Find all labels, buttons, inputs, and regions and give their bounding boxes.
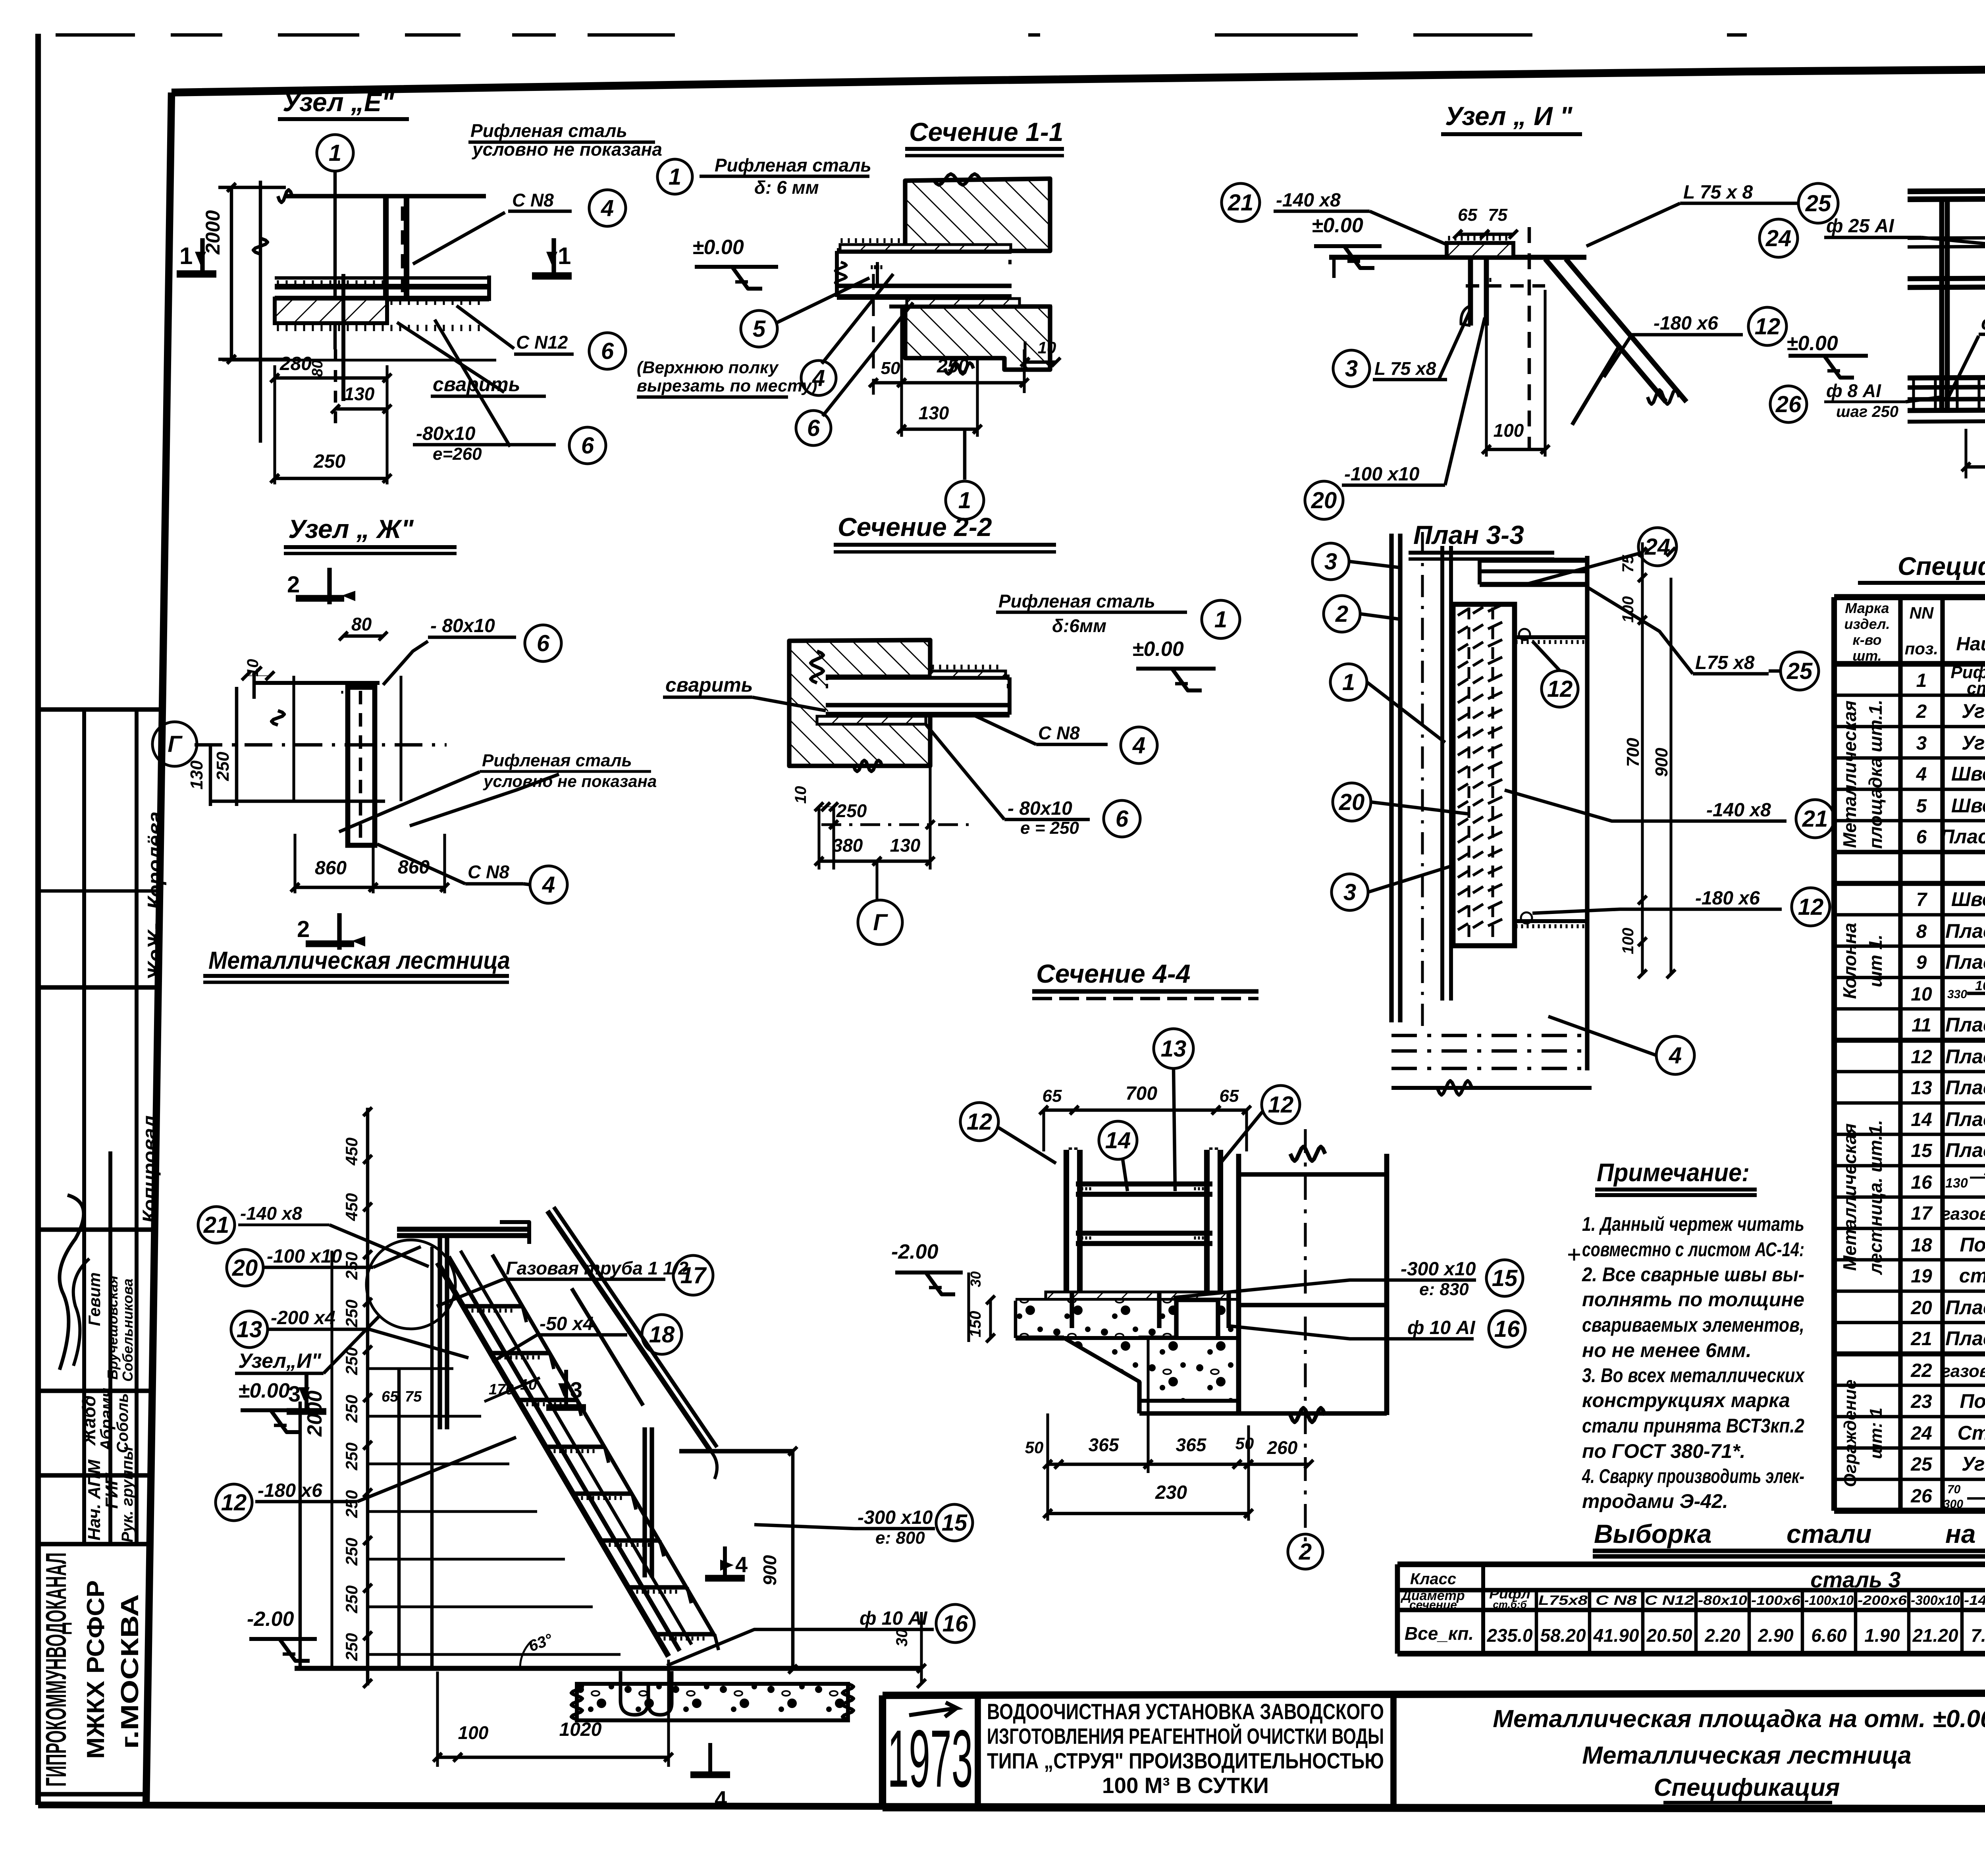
svg-text:ГИПРОКОММУНВОДОКАНАЛ: ГИПРОКОММУНВОДОКАНАЛ: [40, 1552, 72, 1787]
svg-text:3: 3: [1324, 549, 1337, 575]
svg-text:3: 3: [1916, 733, 1927, 754]
svg-text:L 75 х8: L 75 х8: [1374, 358, 1436, 379]
svg-text:Швеллер: Швеллер: [1951, 794, 1985, 817]
svg-text:Уголок: Уголок: [1962, 1453, 1985, 1475]
svg-text:Собельникова: Собельникова: [119, 1278, 136, 1382]
svg-text:сталь: сталь: [1967, 679, 1985, 698]
svg-text:130: 130: [890, 835, 921, 856]
svg-text:±0.00: ±0.00: [1786, 332, 1838, 355]
svg-text:10: 10: [1038, 338, 1056, 357]
svg-text:Металлическая лестница: Металлическая лестница: [208, 947, 510, 974]
svg-text:700: 700: [1125, 1083, 1157, 1104]
svg-text:Пластина: Пластина: [1945, 1296, 1985, 1319]
svg-text:4. Сварку производить элек-: 4. Сварку производить элек-: [1582, 1465, 1804, 1487]
svg-text:1020: 1020: [559, 1719, 602, 1740]
svg-text:7: 7: [1916, 889, 1928, 910]
svg-text:50: 50: [1025, 1438, 1044, 1457]
svg-text:2.90: 2.90: [1758, 1625, 1794, 1646]
svg-text:80: 80: [309, 360, 326, 377]
svg-text:-100 х10: -100 х10: [1344, 464, 1420, 485]
svg-text:вырезать по месту): вырезать по месту): [637, 376, 817, 395]
svg-text:6: 6: [807, 415, 820, 441]
svg-text:-100 х10: -100 х10: [267, 1246, 342, 1267]
svg-text:18: 18: [1911, 1235, 1932, 1256]
svg-text:но не менее 6мм.: но не менее 6мм.: [1582, 1339, 1752, 1361]
svg-text:16: 16: [1911, 1172, 1932, 1193]
svg-text:-140 х8: -140 х8: [240, 1203, 302, 1224]
svg-text:365: 365: [1176, 1434, 1207, 1455]
svg-text:-100х6: -100х6: [1751, 1593, 1801, 1608]
svg-text:Пластина: Пластина: [1945, 1108, 1985, 1130]
svg-text:δ:6мм: δ:6мм: [1052, 615, 1106, 636]
svg-text:1: 1: [958, 488, 971, 513]
svg-text:5: 5: [1916, 796, 1927, 817]
svg-text:900: 900: [759, 1555, 780, 1585]
svg-text:С N8: С N8: [512, 190, 554, 210]
svg-text:Ограждение: Ограждение: [1840, 1379, 1860, 1487]
svg-text:12: 12: [1911, 1047, 1932, 1068]
svg-text:2: 2: [1335, 601, 1348, 627]
svg-text:30: 30: [893, 1629, 911, 1647]
svg-text:Металлическая площадка на от: Металлическая площадка на отм. ±0.00.: [1493, 1705, 1985, 1733]
svg-text:6: 6: [601, 338, 614, 364]
svg-text:Рифленая сталь: Рифленая сталь: [998, 591, 1155, 611]
svg-text:Полоса: Полоса: [1960, 1234, 1985, 1256]
svg-text:-200 х4: -200 х4: [271, 1307, 335, 1328]
svg-text:235.0: 235.0: [1486, 1625, 1533, 1646]
svg-text:Г: Г: [168, 731, 183, 757]
svg-text:14: 14: [1105, 1128, 1131, 1153]
svg-text:130: 130: [344, 384, 375, 404]
title block: [883, 1692, 1985, 1695]
svg-text:24: 24: [1765, 226, 1792, 251]
svg-text:12: 12: [967, 1109, 992, 1135]
svg-text:Швеллер: Швеллер: [1951, 888, 1985, 910]
svg-text:75: 75: [405, 1388, 422, 1405]
svg-text:25: 25: [1786, 658, 1813, 684]
svg-text:ЖоЖ-: ЖоЖ-: [144, 923, 167, 982]
svg-text:100 М³ В СУТКИ: 100 М³ В СУТКИ: [1102, 1773, 1269, 1798]
svg-text:250: 250: [836, 800, 867, 821]
svg-text:250: 250: [342, 1633, 361, 1661]
svg-text:160: 160: [1975, 978, 1985, 993]
left signature column: [39, 707, 162, 711]
svg-text:Пластина: Пластина: [1945, 951, 1985, 973]
svg-text:Г: Г: [873, 910, 888, 935]
svg-text:Все_кп.: Все_кп.: [1405, 1623, 1474, 1644]
svg-text:900: 900: [1652, 748, 1671, 777]
svg-text:4: 4: [735, 1552, 748, 1577]
svg-text:Узел „Е": Узел „Е": [283, 87, 394, 117]
svg-text:-140 х8: -140 х8: [1706, 800, 1771, 821]
svg-text:1973: 1973: [888, 1713, 973, 1804]
svg-text:380: 380: [833, 835, 863, 856]
svg-text:330: 330: [1947, 988, 1967, 1001]
svg-text:20: 20: [232, 1255, 258, 1281]
svg-text:стали принята ВСТ3кп.2: стали принята ВСТ3кп.2: [1582, 1415, 1804, 1437]
svg-text:21: 21: [1228, 190, 1254, 216]
svg-text:стойка: стойка: [1959, 1265, 1985, 1287]
svg-text:е: 830: е: 830: [1419, 1280, 1469, 1299]
svg-text:-50 х4: -50 х4: [540, 1313, 594, 1334]
svg-text:250: 250: [342, 1442, 361, 1471]
svg-text:6.60: 6.60: [1811, 1625, 1847, 1646]
svg-text:Наимен.: Наимен.: [1956, 634, 1985, 655]
svg-text:100: 100: [1619, 928, 1637, 954]
svg-text:1.90: 1.90: [1864, 1625, 1900, 1646]
svg-text:L75 х8: L75 х8: [1695, 652, 1755, 673]
svg-text:Узел „ И ": Узел „ И ": [1445, 101, 1573, 131]
svg-text:ф 8 АI: ф 8 АI: [1826, 380, 1881, 401]
svg-text:15: 15: [942, 1510, 967, 1536]
svg-text:17: 17: [1911, 1203, 1933, 1224]
svg-text:-300х10: -300х10: [1911, 1593, 1960, 1608]
paper edge: [56, 33, 135, 37]
svg-text:Металлическая: Металлическая: [1839, 700, 1860, 848]
svg-text:1: 1: [558, 243, 571, 269]
svg-text:шт.: шт.: [1852, 648, 1882, 664]
svg-text:25: 25: [1910, 1454, 1933, 1475]
svg-text:12: 12: [1268, 1092, 1294, 1118]
svg-text:по ГОСТ 380-71*.: по ГОСТ 380-71*.: [1582, 1440, 1746, 1462]
svg-text:Пластина: Пластина: [1945, 920, 1985, 942]
svg-text:L75х8: L75х8: [1538, 1593, 1588, 1608]
svg-text:Пластина: Пластина: [1945, 1327, 1985, 1350]
svg-text:23: 23: [1910, 1391, 1932, 1412]
svg-text:-140 х8: -140 х8: [1276, 190, 1341, 211]
svg-text:250: 250: [342, 1395, 361, 1423]
svg-text:100: 100: [458, 1722, 489, 1743]
svg-text:130: 130: [1945, 1176, 1968, 1191]
svg-text:Рифленая сталь: Рифленая сталь: [482, 751, 632, 770]
svg-text:10: 10: [1911, 984, 1932, 1005]
svg-text:ИЗГОТОВЛЕНИЯ РЕАГЕНТНОЙ ОЧИСТК: ИЗГОТОВЛЕНИЯ РЕАГЕНТНОЙ ОЧИСТКИ ВОДЫ: [987, 1724, 1384, 1749]
svg-text:Бручешовская: Бручешовская: [104, 1276, 121, 1380]
svg-text:8: 8: [1916, 921, 1927, 942]
svg-text:250: 250: [313, 451, 345, 472]
svg-text:L 75 х 8: L 75 х 8: [1683, 182, 1753, 203]
svg-text:13: 13: [1911, 1078, 1932, 1099]
svg-text:4: 4: [812, 365, 825, 391]
svg-text:Пластинка: Пластинка: [1940, 825, 1985, 848]
svg-text:Соболь: Соболь: [114, 1393, 131, 1453]
svg-text:3: 3: [288, 1381, 301, 1406]
svg-text:-80х10: -80х10: [416, 423, 476, 444]
svg-text:300: 300: [1943, 1498, 1963, 1511]
svg-text:21.20: 21.20: [1912, 1625, 1958, 1646]
svg-text:65: 65: [1458, 205, 1477, 225]
svg-text:15: 15: [1911, 1140, 1933, 1161]
svg-text:15: 15: [1492, 1265, 1518, 1291]
svg-text:С N12: С N12: [516, 332, 568, 353]
svg-text:тродами Э-42.: тродами Э-42.: [1582, 1490, 1728, 1512]
svg-text:21: 21: [1910, 1328, 1932, 1350]
svg-text:-180 х6: -180 х6: [258, 1480, 322, 1501]
svg-text:сталь 3: сталь 3: [1810, 1567, 1901, 1592]
svg-text:50: 50: [881, 359, 900, 378]
svg-text:NN: NN: [1910, 603, 1934, 622]
svg-text:18: 18: [649, 1322, 675, 1348]
svg-text:860: 860: [315, 858, 347, 879]
svg-text:1: 1: [1916, 670, 1927, 691]
svg-text:-180 х6: -180 х6: [1695, 888, 1760, 909]
svg-text:250: 250: [342, 1585, 361, 1614]
svg-text:230: 230: [1155, 1482, 1187, 1503]
svg-text:19: 19: [1911, 1266, 1932, 1287]
svg-text:2.20: 2.20: [1704, 1625, 1740, 1646]
svg-text:1: 1: [179, 243, 193, 269]
svg-text:2: 2: [287, 572, 300, 598]
svg-text:Примечание:: Примечание:: [1597, 1158, 1750, 1187]
svg-text:Сечение 4-4: Сечение 4-4: [1036, 959, 1191, 988]
svg-text:250: 250: [342, 1300, 361, 1328]
svg-text:Сечение 2-2: Сечение 2-2: [838, 512, 992, 542]
svg-text:130: 130: [187, 760, 206, 790]
svg-text:12: 12: [1755, 314, 1781, 339]
svg-text:3: 3: [1343, 879, 1356, 905]
svg-text:1: 1: [669, 164, 681, 190]
svg-text:Марка: Марка: [1845, 600, 1889, 616]
svg-text:Металлическая: Металлическая: [1839, 1123, 1860, 1271]
svg-text:20: 20: [1339, 789, 1365, 815]
svg-text:24: 24: [1910, 1423, 1932, 1444]
svg-text:1: 1: [1214, 607, 1227, 632]
svg-text:ВОДООЧИСТНАЯ УСТАНОВКА ЗАВОД: ВОДООЧИСТНАЯ УСТАНОВКА ЗАВОДСКОГО: [987, 1699, 1384, 1724]
svg-text:100: 100: [1619, 596, 1637, 623]
svg-text:250: 250: [342, 1538, 361, 1566]
svg-text:С N8: С N8: [1596, 1593, 1637, 1608]
svg-text:6: 6: [1916, 827, 1927, 848]
svg-text:План 3-3: План 3-3: [1413, 520, 1524, 549]
svg-text:-80х10: -80х10: [1698, 1593, 1747, 1608]
svg-text:Класс: Класс: [1410, 1570, 1456, 1588]
svg-text:ТИПА „СТРУЯ" ПРОИЗВОДИТЕЛЬНОСТ: ТИПА „СТРУЯ" ПРОИЗВОДИТЕЛЬНОСТЬЮ: [987, 1748, 1384, 1773]
svg-text:1. Данный чертеж читать: 1. Данный чертеж читать: [1582, 1213, 1804, 1235]
svg-text:Пластина: Пластина: [1945, 1139, 1985, 1161]
svg-text:стали: стали: [1786, 1519, 1871, 1548]
svg-text:58.20: 58.20: [1540, 1625, 1586, 1646]
svg-text:С N12: С N12: [1645, 1593, 1694, 1608]
svg-text:г.МОСКВА: г.МОСКВА: [116, 1594, 144, 1749]
svg-text:е = 250: е = 250: [1020, 818, 1079, 838]
svg-text:Спецификация: Спецификация: [1654, 1774, 1840, 1801]
svg-text:16: 16: [942, 1611, 968, 1637]
svg-text:Газовая труба 1 1/2: Газовая труба 1 1/2: [506, 1258, 688, 1278]
svg-text:365: 365: [1089, 1434, 1120, 1455]
svg-text:Рифленая сталь: Рифленая сталь: [470, 120, 627, 141]
svg-text:- 80х10: - 80х10: [430, 615, 495, 636]
svg-text:1: 1: [1342, 669, 1355, 695]
svg-text:Гевит: Гевит: [85, 1273, 104, 1326]
svg-text:сечение: сечение: [1409, 1598, 1457, 1612]
svg-text:-300 х10: -300 х10: [1401, 1259, 1476, 1280]
svg-text:(Верхнюю полку: (Верхнюю полку: [637, 358, 779, 377]
svg-text:Копировал: Копировал: [139, 1115, 161, 1223]
svg-text:11: 11: [1912, 1015, 1931, 1036]
svg-text:3: 3: [1345, 356, 1358, 382]
svg-text:2. Все сварные швы вы-: 2. Все сварные швы вы-: [1582, 1263, 1804, 1286]
svg-text:е=260: е=260: [433, 444, 482, 464]
svg-text:Полоса: Полоса: [1960, 1390, 1985, 1412]
svg-text:130: 130: [919, 403, 949, 423]
svg-text:-100х10: -100х10: [1804, 1593, 1854, 1608]
svg-text:700: 700: [1623, 738, 1643, 767]
svg-text:450: 450: [342, 1193, 361, 1221]
svg-text:Пластина: Пластина: [1945, 1014, 1985, 1036]
svg-text:-300 х10: -300 х10: [858, 1507, 933, 1528]
svg-text:Металлическая лестница: Металлическая лестница: [1582, 1742, 1911, 1769]
svg-text:ф 25 АI: ф 25 АI: [1826, 216, 1894, 237]
svg-text:ф 10 АI: ф 10 АI: [1407, 1317, 1476, 1338]
svg-text:Узел„И": Узел„И": [238, 1350, 322, 1373]
svg-text:Уголок: Уголок: [1962, 732, 1985, 754]
svg-text:4: 4: [1916, 764, 1927, 785]
svg-text:- 80х10: - 80х10: [1008, 798, 1072, 819]
svg-text:условно не показана: условно не показана: [483, 772, 657, 791]
svg-text:14: 14: [1911, 1109, 1932, 1130]
svg-text:Королёва: Королёва: [144, 812, 167, 909]
svg-text:13: 13: [237, 1317, 262, 1342]
svg-text:26: 26: [1910, 1486, 1932, 1507]
svg-text:Колонна: Колонна: [1839, 923, 1860, 999]
svg-text:Спецификация: Спецификация: [1898, 552, 1985, 580]
svg-text:2: 2: [1916, 701, 1927, 722]
svg-text:6: 6: [1116, 806, 1129, 832]
svg-text:Уголок: Уголок: [1962, 700, 1985, 722]
svg-text:поз.: поз.: [1905, 639, 1938, 658]
svg-text:шт: 1: шт: 1: [1866, 1407, 1886, 1459]
frame: [172, 66, 1985, 93]
svg-text:65: 65: [1043, 1086, 1062, 1106]
svg-text:2000: 2000: [202, 210, 224, 255]
svg-text:С N8: С N8: [1038, 723, 1080, 743]
svg-text:издел.: издел.: [1844, 616, 1890, 632]
svg-text:20: 20: [1910, 1298, 1932, 1319]
svg-text:МЖКХ РСФСР: МЖКХ РСФСР: [82, 1580, 110, 1759]
svg-text:лестница. шт.1.: лестница. шт.1.: [1865, 1120, 1886, 1275]
svg-text:Нач. АПМ: Нач. АПМ: [85, 1459, 104, 1541]
svg-text:4: 4: [601, 195, 614, 221]
svg-text:75: 75: [1488, 205, 1507, 225]
svg-text:Сечение 1-1: Сечение 1-1: [909, 117, 1064, 147]
svg-text:65: 65: [1220, 1086, 1239, 1106]
svg-text:3. Во всех металлических: 3. Во всех металлических: [1582, 1364, 1805, 1386]
svg-text:Пластина: Пластина: [1945, 1045, 1985, 1068]
svg-text:26: 26: [1775, 391, 1802, 417]
svg-text:Рук. группы: Рук. группы: [119, 1447, 136, 1542]
svg-text:Абрамч: Абрамч: [97, 1388, 116, 1452]
svg-text:1: 1: [329, 140, 341, 166]
svg-text:Узел „ Ж": Узел „ Ж": [288, 514, 414, 544]
svg-text:75: 75: [1619, 555, 1637, 573]
svg-text:±0.00: ±0.00: [1312, 214, 1363, 237]
svg-text:280: 280: [279, 353, 312, 374]
svg-text:-2.00: -2.00: [891, 1240, 939, 1263]
svg-text:12: 12: [1798, 894, 1824, 920]
svg-text:полнять по толщине: полнять по толщине: [1582, 1288, 1804, 1311]
svg-text:сварить: сварить: [1981, 312, 1985, 334]
svg-text:12: 12: [1547, 676, 1573, 702]
svg-text:свариваемых элементов,: свариваемых элементов,: [1582, 1314, 1804, 1336]
svg-text:16: 16: [1494, 1316, 1520, 1342]
svg-text:6: 6: [581, 433, 594, 459]
svg-text:70: 70: [1947, 1483, 1961, 1496]
svg-text:80: 80: [351, 614, 372, 634]
svg-text:ф 10 АI: ф 10 АI: [860, 1608, 928, 1629]
svg-text:4: 4: [542, 872, 555, 898]
svg-text:С N8: С N8: [468, 862, 509, 882]
svg-text:газов.труба: газов.труба: [1941, 1361, 1985, 1381]
svg-text:Швеллер: Швеллер: [1951, 763, 1985, 785]
svg-text:12: 12: [221, 1490, 247, 1515]
svg-text:-200х6: -200х6: [1858, 1593, 1907, 1608]
svg-text:65: 65: [382, 1388, 399, 1405]
svg-text:2: 2: [297, 916, 310, 942]
svg-text:17: 17: [680, 1263, 707, 1288]
svg-text:41.90: 41.90: [1593, 1625, 1639, 1646]
svg-text:100: 100: [1494, 420, 1524, 441]
svg-text:шаг 250: шаг 250: [1836, 403, 1898, 420]
svg-text:ст.б:б: ст.б:б: [1493, 1598, 1527, 1610]
svg-text:±0.00: ±0.00: [692, 236, 744, 259]
svg-text:20.50: 20.50: [1646, 1625, 1692, 1646]
svg-text:Стойка: Стойка: [1958, 1422, 1985, 1444]
svg-text:к-во: к-во: [1852, 632, 1881, 648]
svg-text:20: 20: [1311, 488, 1337, 513]
svg-text:-140х8: -140х8: [1964, 1593, 1985, 1608]
svg-text:условно не показана: условно не показана: [472, 139, 662, 160]
svg-text:±0.00: ±0.00: [238, 1379, 290, 1402]
svg-text:250: 250: [213, 752, 233, 781]
svg-text:260: 260: [1267, 1437, 1298, 1458]
svg-text:50: 50: [1235, 1434, 1254, 1453]
svg-text:7.40: 7.40: [1971, 1625, 1985, 1646]
svg-text:250: 250: [937, 356, 969, 377]
svg-text:250: 250: [342, 1490, 361, 1518]
svg-text:6: 6: [537, 630, 550, 656]
svg-text:±0.00: ±0.00: [1132, 638, 1184, 661]
svg-text:10: 10: [792, 786, 809, 804]
svg-text:Выборка: Выборка: [1594, 1519, 1711, 1548]
svg-text:δ: 6 мм: δ: 6 мм: [754, 177, 819, 198]
svg-text:4: 4: [715, 1786, 727, 1811]
svg-text:21: 21: [203, 1212, 229, 1238]
svg-text:сварить: сварить: [665, 674, 753, 696]
svg-text:Жабд: Жабд: [79, 1395, 99, 1446]
svg-text:е: 800: е: 800: [875, 1528, 925, 1548]
svg-text:450: 450: [342, 1138, 361, 1166]
svg-text:шт 1.: шт 1.: [1865, 935, 1886, 987]
svg-text:Рифленая сталь: Рифленая сталь: [715, 155, 871, 175]
svg-text:Пластина: Пластина: [1945, 1076, 1985, 1099]
svg-text:13: 13: [1161, 1036, 1187, 1062]
svg-text:5: 5: [753, 316, 766, 342]
svg-text:площадка шт.1.: площадка шт.1.: [1865, 700, 1886, 849]
svg-text:конструкциях марка: конструкциях марка: [1582, 1389, 1790, 1411]
svg-text:2: 2: [1299, 1539, 1312, 1565]
svg-text:3: 3: [570, 1377, 582, 1402]
svg-text:-180 х6: -180 х6: [1654, 313, 1718, 334]
svg-text:-2.00: -2.00: [247, 1608, 294, 1631]
svg-text:25: 25: [1805, 191, 1831, 216]
svg-text:4: 4: [1132, 733, 1145, 758]
svg-text:газов.труба: газов.труба: [1941, 1204, 1985, 1224]
svg-text:21: 21: [1802, 806, 1828, 832]
svg-text:на: на: [1945, 1519, 1976, 1548]
svg-text:9: 9: [1916, 952, 1927, 973]
svg-text:совместно с листом АС-14:: совместно с листом АС-14:: [1582, 1238, 1804, 1261]
svg-text:22: 22: [1910, 1360, 1932, 1381]
